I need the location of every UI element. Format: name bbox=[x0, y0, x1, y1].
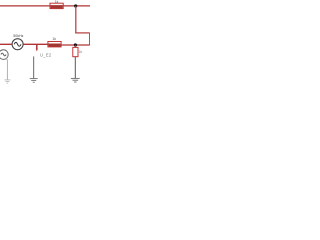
wire vertical from top junction bbox=[75, 6, 77, 33]
wire top horizontal net bbox=[0, 5, 90, 7]
svg-text:1k: 1k bbox=[52, 37, 56, 41]
node junction dot middle bbox=[74, 43, 77, 46]
wire stub junction to R3 bbox=[74, 45, 76, 48]
wire middle horizontal net bbox=[0, 43, 49, 45]
wire V2 to ground (light gray) bbox=[6, 58, 7, 79]
svg-text:U_E2: U_E2 bbox=[40, 52, 52, 57]
svg-text:50kHz: 50kHz bbox=[13, 34, 23, 38]
wire middle-left to ground bbox=[33, 56, 35, 78]
node junction dot top bbox=[74, 4, 77, 7]
ground right (dark) bbox=[71, 78, 80, 82]
voltage arrow U_E2 bbox=[36, 44, 38, 51]
wire R3 to ground bbox=[74, 57, 76, 78]
svg-text:1k: 1k bbox=[55, 0, 59, 4]
resistor R2 (middle, horizontal) bbox=[48, 42, 61, 47]
wire horizontal right loop bbox=[75, 32, 90, 34]
resistor R3 (load, vertical) bbox=[73, 47, 78, 56]
svg-text:1k: 1k bbox=[79, 50, 83, 54]
ground middle-left (dark gray) bbox=[30, 79, 38, 83]
wire vertical right edge bbox=[89, 33, 91, 45]
ground left (light gray) bbox=[4, 80, 10, 83]
AC source V2 (partially cropped) bbox=[0, 50, 8, 60]
AC source V1 bbox=[12, 39, 23, 50]
resistor R1 (top, horizontal) bbox=[50, 3, 63, 8]
